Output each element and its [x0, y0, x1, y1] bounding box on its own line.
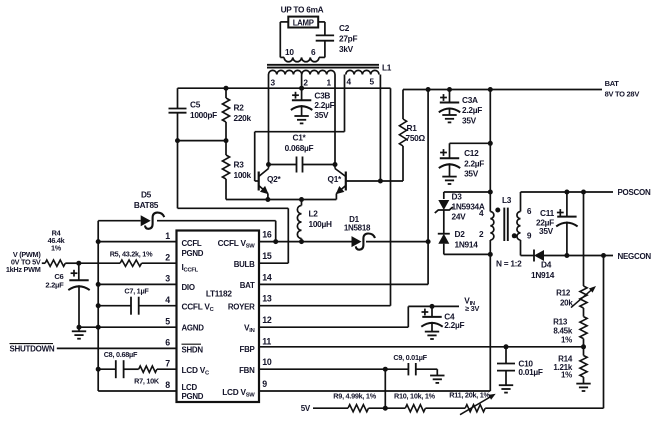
- wire L3 pin6 up: [520, 192, 522, 212]
- wire: [431, 322, 433, 332]
- transformer T1 feedback winding 4-5: [346, 70, 379, 74]
- svg-text:D2: D2: [455, 229, 466, 239]
- capacitor C5: [169, 108, 187, 110]
- svg-text:4: 4: [347, 77, 352, 87]
- svg-text:9: 9: [262, 379, 267, 389]
- svg-text:R12: R12: [556, 288, 571, 297]
- junction: [224, 138, 229, 143]
- svg-text:16: 16: [262, 230, 272, 240]
- ground C3A: [442, 114, 456, 116]
- wire: [425, 407, 465, 409]
- Q2 emitter arrow: [260, 186, 269, 194]
- wire: [78, 327, 80, 331]
- svg-text:CCFL: CCFL: [182, 239, 202, 248]
- wire: [505, 347, 507, 364]
- wire V(PWM) input: [42, 262, 45, 264]
- svg-text:220k: 220k: [234, 113, 252, 123]
- svg-text:35V: 35V: [314, 110, 329, 120]
- junction: [96, 239, 101, 244]
- wire FBN pin10 row: [259, 368, 385, 370]
- junction: [601, 253, 606, 258]
- svg-text:L2: L2: [309, 209, 319, 219]
- svg-text:2: 2: [165, 252, 170, 262]
- capacitor C8: [115, 360, 117, 378]
- wire: [177, 88, 179, 108]
- wire VIN pin12 row: [259, 326, 408, 328]
- svg-text:1: 1: [327, 78, 332, 88]
- phase dot L3 secondary: [512, 233, 517, 238]
- wire FBP pin11 to divider: [259, 346, 584, 348]
- svg-text:R13: R13: [553, 317, 568, 326]
- svg-text:SHUTDOWN: SHUTDOWN: [10, 345, 55, 354]
- wire R1 top: [402, 90, 404, 120]
- svg-text:ICCFL: ICCFL: [182, 262, 199, 274]
- transistor Q1 emitter: [336, 186, 345, 194]
- svg-text:3: 3: [165, 274, 170, 284]
- svg-text:PGND: PGND: [182, 392, 204, 401]
- svg-text:FBP: FBP: [240, 345, 255, 354]
- transformer L1 core: [267, 64, 379, 66]
- transformer L3 core: [503, 208, 505, 241]
- wire: [449, 108, 451, 116]
- ground C10: [499, 384, 513, 386]
- inductor L2: [297, 206, 301, 239]
- svg-text:100µH: 100µH: [309, 219, 333, 229]
- wire to ROYER pin 13: [259, 305, 391, 307]
- svg-text:12: 12: [262, 315, 272, 325]
- wire royer descender: [390, 88, 392, 306]
- wire D1 cathode: [366, 241, 428, 243]
- wire to BAT pin 14: [259, 283, 428, 285]
- wire: [449, 90, 451, 103]
- wire: [279, 22, 281, 58]
- wire: [427, 242, 429, 285]
- wire CCFL VSW pin16 row: [259, 241, 352, 243]
- svg-text:LCD VSW: LCD VSW: [222, 387, 255, 399]
- resistor R12 (adjustable): [580, 286, 587, 308]
- junction: [96, 367, 101, 372]
- svg-text:C9, 0.01µF: C9, 0.01µF: [393, 353, 427, 362]
- node center tap: [299, 86, 304, 91]
- phase dot L3 primary: [495, 208, 500, 213]
- junction: [224, 86, 229, 91]
- ground R14: [576, 383, 590, 385]
- junction: [581, 190, 586, 195]
- capacitor C4: [422, 316, 441, 318]
- wire BAT column: [427, 90, 429, 242]
- junction: [299, 239, 304, 244]
- resistor R9: [348, 405, 369, 412]
- svg-text:CCFL VC: CCFL VC: [182, 301, 215, 313]
- transformer T1 primary winding 3-2-1: [269, 70, 336, 74]
- svg-text:2.2µF: 2.2µF: [45, 280, 64, 289]
- wire Q2 base riser: [254, 132, 256, 181]
- junction: [383, 406, 388, 411]
- svg-text:100k: 100k: [234, 170, 252, 180]
- wire pin1 to ground bus: [98, 241, 176, 243]
- svg-text:SHDN: SHDN: [182, 345, 204, 354]
- svg-text:C8, 0.68µF: C8, 0.68µF: [104, 350, 138, 359]
- wire pin3 DIO to ground bus: [98, 283, 176, 285]
- wire: [177, 113, 179, 141]
- svg-text:POSCON: POSCON: [618, 188, 651, 197]
- wire emitter bus: [226, 199, 336, 201]
- wire T1 pin3 to Q2 collector: [268, 75, 270, 165]
- wire: [287, 208, 289, 263]
- svg-text:11: 11: [262, 336, 271, 346]
- wire: [449, 143, 451, 158]
- wire: [301, 239, 303, 242]
- wire: [280, 56, 284, 58]
- svg-text:2.2µF: 2.2µF: [444, 320, 464, 330]
- svg-text:C1*: C1*: [293, 133, 307, 143]
- capacitor C6: [69, 279, 88, 281]
- wire left ground bus: [97, 221, 99, 391]
- wire: [319, 56, 325, 58]
- svg-text:1N5818: 1N5818: [344, 223, 371, 232]
- wire: [436, 369, 438, 375]
- svg-text:PGND: PGND: [182, 249, 204, 258]
- svg-text:DIO: DIO: [182, 283, 195, 292]
- junction: [488, 141, 493, 146]
- wire: [225, 122, 227, 141]
- svg-text:1kHz PWM: 1kHz PWM: [6, 265, 41, 274]
- resistor R1: [399, 119, 406, 146]
- wire: [485, 407, 603, 409]
- wire: [566, 222, 568, 256]
- capacitor C10: [497, 363, 515, 365]
- wire POSCON: [521, 191, 614, 193]
- wire: [78, 263, 80, 280]
- plus C6: [71, 272, 78, 274]
- wire: [566, 192, 568, 217]
- resistor R5: [120, 260, 142, 266]
- resistor R4: [45, 260, 65, 266]
- transistor Q1 base bar: [345, 172, 347, 191]
- svg-text:1%: 1%: [51, 244, 62, 253]
- svg-text:L1: L1: [382, 63, 392, 73]
- svg-text:13: 13: [262, 294, 272, 304]
- junction: [96, 303, 101, 308]
- wire: [505, 371, 507, 386]
- lamp box: [288, 17, 318, 28]
- IC U1 LT1182 body: [177, 231, 260, 403]
- wire: [369, 407, 406, 409]
- svg-text:C12: C12: [464, 148, 479, 158]
- svg-text:BAT85: BAT85: [134, 200, 159, 210]
- svg-text:15: 15: [262, 251, 272, 261]
- transformer T1 secondary winding: [284, 57, 319, 61]
- svg-text:2.2µF: 2.2µF: [314, 100, 334, 110]
- wire pin9 row: [259, 390, 490, 392]
- node FBP divider: [581, 344, 586, 349]
- junction: [504, 344, 509, 349]
- svg-text:0.068µF: 0.068µF: [285, 143, 314, 153]
- svg-text:UP TO 6mA: UP TO 6mA: [281, 5, 324, 15]
- node R4/C6: [76, 261, 81, 266]
- zener diode D3 1N5934A: [438, 200, 449, 210]
- svg-text:3kV: 3kV: [339, 44, 354, 54]
- junction: [564, 190, 569, 195]
- wire clamp bottom: [444, 253, 491, 255]
- R11 wiper arrow: [460, 396, 493, 415]
- wire pin4 row: [98, 305, 131, 307]
- wire to BULB pin 15: [259, 262, 288, 264]
- ground C12: [442, 176, 456, 178]
- transistor Q2 base bar: [258, 172, 260, 191]
- svg-text:C2: C2: [339, 23, 350, 33]
- resistor R14: [580, 356, 587, 378]
- svg-text:1: 1: [165, 231, 170, 241]
- ground C3B: [294, 115, 308, 117]
- wire to pin2: [142, 262, 177, 264]
- svg-text:35V: 35V: [464, 169, 479, 179]
- junction: [488, 190, 493, 195]
- svg-text:CCFL VSW: CCFL VSW: [218, 238, 256, 250]
- resistor R11 (adjustable): [465, 405, 485, 412]
- svg-text:C7, 1µF: C7, 1µF: [124, 287, 149, 296]
- wire: [416, 368, 438, 370]
- junction: [265, 197, 270, 202]
- svg-text:D3: D3: [452, 191, 463, 201]
- diode D4 1N914: [534, 250, 544, 261]
- svg-text:6: 6: [165, 338, 170, 348]
- junction: [430, 304, 435, 309]
- svg-text:2.2µF: 2.2µF: [462, 105, 482, 115]
- wire: [225, 88, 227, 98]
- svg-text:BAT: BAT: [240, 281, 255, 290]
- ground C4: [425, 331, 439, 333]
- plus C12: [440, 152, 447, 154]
- wire D5 row left: [98, 220, 141, 222]
- svg-text:LCD: LCD: [182, 383, 198, 392]
- resistor R13: [580, 317, 587, 339]
- wire: [521, 255, 535, 257]
- svg-text:1N914: 1N914: [531, 270, 555, 280]
- svg-text:VIN: VIN: [244, 323, 255, 335]
- wire: [449, 163, 451, 176]
- wire: [443, 210, 445, 234]
- capacitor C3B: [292, 99, 311, 101]
- svg-text:LCD VC: LCD VC: [182, 365, 211, 377]
- svg-text:35V: 35V: [539, 226, 554, 236]
- wire SHUTDOWN to pin6: [57, 347, 177, 349]
- wire L3 pin2 to LCD VSW: [489, 254, 491, 391]
- svg-text:9: 9: [527, 231, 532, 241]
- plus C3B: [292, 94, 299, 96]
- svg-text:6: 6: [311, 47, 316, 57]
- wire VIN: [408, 305, 459, 307]
- svg-text:14: 14: [262, 272, 272, 282]
- wire: [267, 194, 269, 200]
- resistor R3: [222, 155, 229, 179]
- transformer L3 secondary winding: [517, 212, 521, 241]
- svg-text:4: 4: [479, 208, 484, 218]
- wire: [583, 377, 585, 384]
- shutdown overline: [10, 343, 54, 345]
- svg-text:R2: R2: [234, 103, 245, 113]
- svg-text:R10, 10k, 1%: R10, 10k, 1%: [394, 391, 436, 400]
- svg-text:R9, 4.99k, 1%: R9, 4.99k, 1%: [333, 391, 376, 400]
- svg-text:10: 10: [262, 357, 272, 367]
- svg-text:LAMP: LAMP: [293, 18, 314, 27]
- svg-text:L3: L3: [502, 195, 512, 205]
- junction: [488, 87, 493, 92]
- diode D5 BAT85 (schottky): [141, 215, 151, 226]
- junction: [564, 253, 569, 258]
- wire: [489, 240, 491, 254]
- wire 5V: [313, 407, 348, 409]
- svg-text:LT1182: LT1182: [206, 289, 233, 299]
- plus C4: [422, 311, 429, 313]
- Q1 emitter arrow: [336, 186, 345, 194]
- svg-text:C5: C5: [190, 100, 201, 110]
- wire: [301, 200, 303, 206]
- svg-text:C11: C11: [540, 208, 555, 218]
- junction: [77, 325, 82, 330]
- wire D5 row right: [157, 220, 276, 222]
- wire BAT line: [403, 89, 602, 91]
- ground C9: [430, 375, 444, 377]
- svg-text:ROYER: ROYER: [228, 302, 255, 311]
- junction: [273, 239, 278, 244]
- wire Q2 base: [255, 180, 259, 182]
- svg-text:5: 5: [370, 77, 375, 87]
- transistor Q2 emitter: [259, 186, 268, 194]
- junction: [266, 162, 271, 167]
- svg-text:2.2µF: 2.2µF: [464, 158, 484, 168]
- svg-text:Q2*: Q2*: [267, 174, 282, 184]
- svg-text:≥ 3V: ≥ 3V: [465, 304, 479, 313]
- wire pin7 row: [98, 368, 116, 370]
- svg-text:R1: R1: [407, 123, 418, 133]
- wire POSCON to R12: [583, 192, 585, 286]
- svg-text:3: 3: [271, 78, 276, 88]
- capacitor C7: [130, 297, 132, 315]
- resistor R7: [139, 366, 157, 372]
- wire C1 right: [303, 164, 336, 166]
- wire: [157, 368, 177, 370]
- wire clamp top: [444, 191, 491, 193]
- svg-text:1000pF: 1000pF: [190, 110, 217, 120]
- wire: [79, 262, 120, 264]
- node D1/BAT column: [426, 239, 431, 244]
- svg-text:35V: 35V: [462, 115, 477, 125]
- wire T1 pin1 to Q1 collector: [334, 75, 336, 165]
- svg-text:27pF: 27pF: [339, 34, 357, 44]
- transformer L3 primary winding: [490, 212, 494, 241]
- wire: [78, 285, 80, 327]
- svg-text:2: 2: [479, 229, 484, 239]
- wire Q1 base row: [346, 180, 403, 182]
- svg-text:AGND: AGND: [182, 324, 205, 333]
- svg-text:24V: 24V: [452, 212, 467, 222]
- capacitor C2: [316, 34, 334, 36]
- svg-text:0.01µF: 0.01µF: [518, 367, 543, 377]
- wire BAT to L3 primary: [489, 90, 491, 193]
- svg-text:R7, 10K: R7, 10K: [134, 377, 160, 386]
- plus C11: [557, 212, 564, 214]
- wire lamp right: [318, 21, 325, 23]
- wire C12 branch: [450, 142, 491, 144]
- svg-text:7: 7: [165, 358, 170, 368]
- wire: [583, 339, 585, 356]
- svg-text:750Ω: 750Ω: [406, 133, 426, 143]
- wire pin8 row: [98, 390, 176, 392]
- node Q1 base / T1 pin5: [378, 179, 383, 184]
- junction: [447, 87, 452, 92]
- junction: [175, 138, 180, 143]
- svg-text:5V: 5V: [301, 404, 311, 413]
- wire: [124, 368, 139, 370]
- wire up to NEGCON: [603, 256, 605, 409]
- svg-text:BAT: BAT: [605, 79, 620, 88]
- transistor Q2 collector: [259, 169, 269, 177]
- svg-text:FBN: FBN: [239, 366, 255, 375]
- wire lamp left: [280, 21, 288, 23]
- wire T1 pin2 center tap: [301, 75, 303, 101]
- capacitor C12: [440, 157, 459, 159]
- wire BULB to C5/R2: [178, 207, 289, 209]
- svg-text:1%: 1%: [561, 335, 572, 344]
- transistor Q1 collector: [335, 169, 346, 177]
- junction: [96, 325, 101, 330]
- wire: [407, 306, 409, 327]
- svg-text:Q1*: Q1*: [328, 174, 343, 184]
- wire: [65, 262, 79, 264]
- plus C3A: [440, 97, 447, 99]
- wire: [335, 194, 337, 200]
- svg-text:D4: D4: [541, 260, 552, 270]
- svg-text:10: 10: [285, 47, 294, 57]
- junction: [96, 282, 101, 287]
- svg-text:R5, 43.2k, 1%: R5, 43.2k, 1%: [110, 249, 153, 258]
- capacitor C9: [407, 363, 409, 375]
- junction: [333, 162, 338, 167]
- ground C6/AGND: [72, 330, 86, 332]
- svg-text:8.45k: 8.45k: [553, 327, 572, 336]
- capacitor C11: [557, 216, 576, 218]
- svg-text:6: 6: [527, 206, 532, 216]
- svg-text:R3: R3: [234, 160, 245, 170]
- svg-text:BULB: BULB: [234, 260, 255, 269]
- resistor R2: [222, 98, 229, 122]
- wire L3 pin9 down: [520, 240, 522, 256]
- wire mid link: [178, 140, 227, 142]
- svg-text:D5: D5: [141, 190, 152, 200]
- resistor R10: [405, 405, 425, 412]
- diode D2 1N914: [438, 234, 449, 244]
- wire: [324, 41, 326, 58]
- wire D5 riser: [275, 221, 277, 242]
- wire: [443, 192, 445, 199]
- capacitor C3A: [440, 102, 459, 104]
- wire NEGCON: [544, 255, 613, 257]
- wire royer bus: [178, 87, 391, 89]
- wire: [324, 22, 326, 36]
- svg-text:N = 1:2: N = 1:2: [496, 259, 522, 269]
- wire pin5 AGND row: [79, 326, 177, 328]
- junction: [488, 252, 493, 257]
- junction: [299, 197, 304, 202]
- svg-text:8V TO 28V: 8V TO 28V: [605, 89, 640, 98]
- svg-text:2: 2: [303, 78, 308, 88]
- wire: [301, 105, 303, 116]
- svg-text:20k: 20k: [560, 298, 573, 307]
- wire: [583, 308, 585, 317]
- wire: [139, 305, 177, 307]
- wire FBN to divider: [384, 369, 386, 408]
